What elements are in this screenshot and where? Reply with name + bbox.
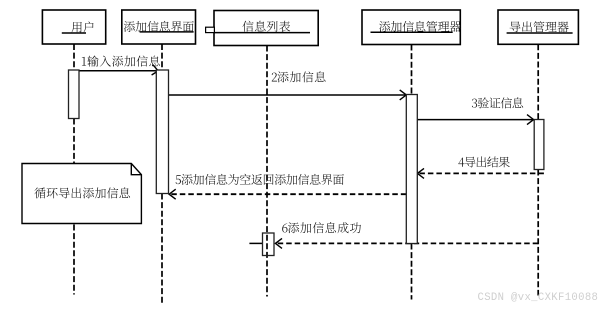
svg-text:CSDN @vx_CXKF10088: CSDN @vx_CXKF10088 — [478, 292, 599, 304]
